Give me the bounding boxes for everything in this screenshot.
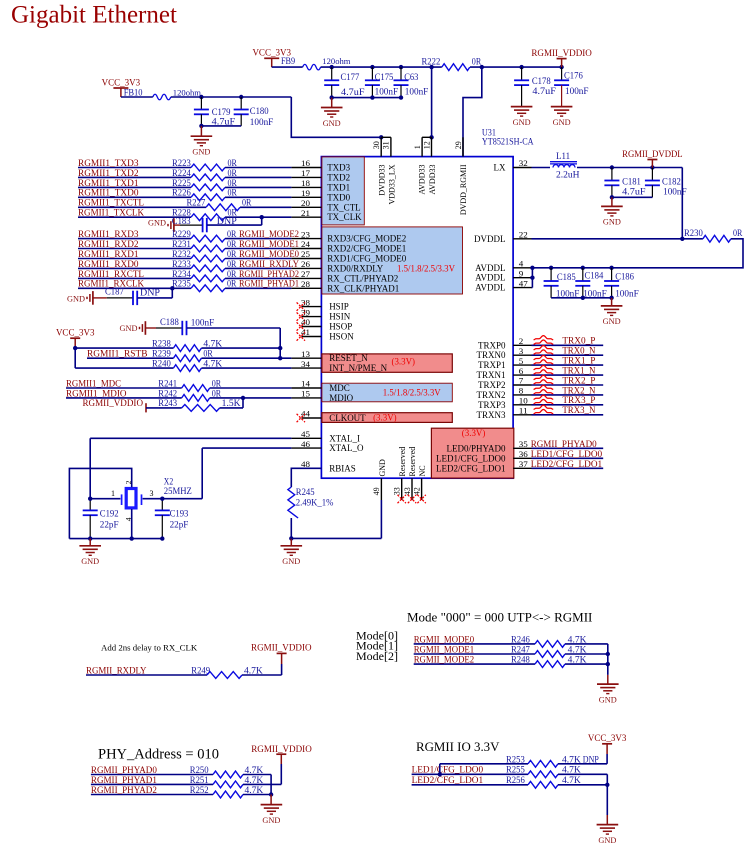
wire AVDDL cap bottoms: [551, 297, 612, 299]
ground below C176: [551, 106, 573, 108]
svg-text:4.7uF: 4.7uF: [212, 116, 236, 126]
svg-text:Gigabit Ethernet: Gigabit Ethernet: [11, 2, 177, 29]
svg-text:RGMII_MODE0: RGMII_MODE0: [414, 636, 475, 646]
svg-text:16: 16: [301, 158, 311, 168]
svg-text:AVDD33: AVDD33: [428, 165, 437, 195]
capacitor C186 100nF: [611, 268, 613, 281]
ground (PHY address): [270, 795, 272, 805]
svg-text:1.5/1.8/2.5/3.3V: 1.5/1.8/2.5/3.3V: [397, 264, 455, 274]
ground below R245: [290, 538, 292, 545]
svg-text:LED1/CFG_LDO0: LED1/CFG_LDO0: [531, 450, 603, 460]
svg-text:Mode[2]: Mode[2]: [356, 649, 398, 663]
wire net RGMII_PHYAD1: [91, 783, 213, 785]
highlight box RESET group: [322, 354, 452, 372]
svg-text:4.7K: 4.7K: [562, 754, 581, 764]
svg-text:VDD33_LX: VDD33_LX: [388, 164, 397, 204]
svg-text:TRXP0: TRXP0: [478, 340, 506, 350]
svg-text:0R: 0R: [227, 279, 237, 289]
wire net RGMII1_RXCTL: [78, 277, 191, 279]
svg-text:LED2/CFG_LDO1: LED2/CFG_LDO1: [436, 463, 506, 473]
svg-text:R238: R238: [152, 338, 171, 348]
svg-text:C192: C192: [100, 508, 119, 518]
svg-text:RGMII_PHYAD2: RGMII_PHYAD2: [239, 270, 299, 280]
svg-text:0R: 0R: [472, 57, 482, 67]
svg-text:46: 46: [301, 439, 311, 449]
svg-text:15: 15: [301, 389, 311, 399]
svg-text:RGMII_PHYAD0: RGMII_PHYAD0: [91, 766, 157, 776]
svg-text:RGMII1_TXD1: RGMII1_TXD1: [78, 179, 139, 189]
svg-text:GND: GND: [603, 217, 621, 227]
svg-text:GND: GND: [148, 218, 166, 228]
svg-text:42: 42: [412, 487, 421, 495]
U31 no-connect pins 38-41 and 44: [301, 306, 321, 308]
svg-text:R235: R235: [172, 279, 191, 289]
svg-text:9: 9: [519, 268, 524, 278]
svg-text:TRX3_N: TRX3_N: [562, 406, 595, 416]
svg-text:R239: R239: [152, 349, 171, 359]
no-connect marks pins 33/43/42: [398, 495, 406, 503]
highlight box LED group: [431, 428, 513, 478]
svg-text:LED0/PHYAD0: LED0/PHYAD0: [446, 443, 506, 453]
svg-text:Add 2ns delay to RX_CLK: Add 2ns delay to RX_CLK: [101, 642, 198, 652]
svg-text:DVDD_RGMII: DVDD_RGMII: [459, 164, 468, 215]
wire crystal case ground: [69, 468, 131, 538]
svg-text:GND: GND: [598, 835, 616, 845]
svg-text:HSIP: HSIP: [329, 302, 349, 312]
wire net RGMII1_RXD1: [78, 258, 191, 260]
svg-text:1.5/1.8/2.5/3.3V: 1.5/1.8/2.5/3.3V: [383, 387, 441, 397]
svg-text:31: 31: [382, 141, 391, 149]
wire VCC_3V3 to DVDD33 rail: [121, 96, 153, 98]
wire to AVDD33 pins 1/12: [431, 67, 433, 137]
svg-text:YT8521SH-CA: YT8521SH-CA: [482, 136, 534, 146]
svg-text:C182: C182: [662, 177, 681, 187]
svg-text:13: 13: [301, 349, 311, 359]
wire C187 to RX_CLK: [137, 297, 172, 299]
capacitor C177: [331, 67, 333, 80]
svg-text:AVDDL: AVDDL: [475, 263, 505, 273]
svg-text:R247: R247: [511, 645, 530, 655]
wire cap bottoms: [201, 125, 241, 127]
svg-text:DVDD33: DVDD33: [377, 165, 386, 196]
wire net RGMII_MODE1: [414, 653, 535, 655]
svg-text:3: 3: [150, 489, 154, 498]
svg-text:RGMII_VDDIO: RGMII_VDDIO: [251, 643, 312, 653]
svg-text:RXD0/RXDLY: RXD0/RXDLY: [327, 263, 384, 273]
svg-text:100nF: 100nF: [191, 318, 215, 328]
svg-text:R240: R240: [152, 358, 171, 368]
svg-text:C175: C175: [375, 72, 394, 82]
svg-text:4: 4: [519, 259, 524, 269]
svg-text:INT_N/PME_N: INT_N/PME_N: [329, 363, 387, 373]
svg-text:RGMII_PHYAD2: RGMII_PHYAD2: [91, 786, 157, 796]
svg-text:1.5K: 1.5K: [222, 398, 241, 408]
svg-text:TXD0: TXD0: [327, 192, 350, 202]
svg-text:100nF: 100nF: [565, 86, 589, 96]
svg-text:33: 33: [393, 487, 402, 495]
svg-text:R241: R241: [158, 378, 177, 388]
svg-text:CLKOUT: CLKOUT: [329, 413, 366, 423]
svg-text:(3.3V): (3.3V): [462, 428, 486, 438]
svg-text:TXD1: TXD1: [327, 182, 350, 192]
svg-text:25: 25: [301, 249, 311, 259]
svg-text:R246: R246: [511, 635, 530, 645]
wire C188 to RESET_N: [187, 327, 281, 329]
svg-text:21: 21: [301, 208, 310, 218]
svg-text:0R: 0R: [228, 168, 238, 178]
svg-text:43: 43: [403, 487, 412, 495]
svg-text:4.7K: 4.7K: [568, 655, 587, 665]
svg-text:TRX1_N: TRX1_N: [562, 367, 595, 377]
svg-text:RX_CLK/PHYAD1: RX_CLK/PHYAD1: [327, 283, 399, 293]
differential pair mark TRX1_P: [534, 355, 554, 359]
wire net RGMII1_TXD0: [78, 196, 191, 198]
svg-text:4.7uF: 4.7uF: [341, 87, 365, 97]
svg-text:R250: R250: [190, 765, 209, 775]
svg-text:R234: R234: [172, 269, 191, 279]
svg-text:100nF: 100nF: [375, 87, 399, 97]
svg-text:TRXN2: TRXN2: [477, 390, 506, 400]
svg-text:R229: R229: [172, 229, 191, 239]
U31 right pin stubs and numbers: [513, 167, 531, 169]
capacitor C185 100nF: [550, 268, 552, 281]
svg-text:RGMII1_TXD2: RGMII1_TXD2: [78, 169, 139, 179]
wire net RGMII1_RXD2: [78, 248, 191, 250]
svg-text:L11: L11: [556, 151, 570, 161]
highlight box RXD group: [322, 227, 463, 294]
svg-text:R222: R222: [422, 57, 441, 67]
svg-text:AVDD33: AVDD33: [418, 165, 427, 195]
svg-text:29: 29: [454, 141, 463, 149]
wire net TRX2_N: [532, 394, 604, 396]
svg-text:C186: C186: [615, 271, 634, 281]
svg-text:R227: R227: [187, 198, 206, 208]
svg-text:4.7K: 4.7K: [203, 358, 222, 368]
svg-text:FB9: FB9: [281, 56, 295, 66]
svg-text:4.7K: 4.7K: [245, 775, 264, 785]
svg-text:35: 35: [519, 439, 529, 449]
svg-text:R230: R230: [684, 228, 703, 238]
svg-text:RGMII IO 3.3V: RGMII IO 3.3V: [416, 740, 500, 754]
svg-text:27: 27: [301, 269, 311, 279]
svg-text:GND: GND: [192, 147, 210, 157]
svg-text:TRXN0: TRXN0: [477, 350, 506, 360]
svg-text:R252: R252: [190, 785, 209, 795]
wire net RGMII_PHYAD2: [91, 794, 213, 796]
svg-text:RX_CTL/PHYAD2: RX_CTL/PHYAD2: [327, 273, 398, 283]
U31 bottom pin stubs: [380, 478, 382, 500]
svg-text:GND: GND: [120, 323, 138, 333]
svg-text:RXD1/CFG_MODE0: RXD1/CFG_MODE0: [327, 254, 407, 264]
resistor R240 4.7K: [74, 348, 76, 368]
svg-text:26: 26: [301, 259, 311, 269]
svg-text:4.7K: 4.7K: [568, 645, 587, 655]
svg-text:R233: R233: [172, 259, 191, 269]
svg-text:4.7uF: 4.7uF: [622, 187, 646, 197]
svg-text:C184: C184: [585, 270, 604, 280]
svg-text:12: 12: [422, 141, 431, 149]
svg-text:22pF: 22pF: [100, 519, 119, 529]
svg-text:RGMII_MODE0: RGMII_MODE0: [239, 250, 299, 260]
svg-text:1: 1: [111, 489, 115, 498]
wire net TRX1_P: [532, 364, 604, 366]
wire net LX: [532, 167, 551, 169]
highlight box CLKOUT: [322, 413, 452, 423]
ground below C177: [331, 98, 333, 108]
capacitor C184 100nF: [582, 268, 584, 281]
svg-text:23: 23: [301, 229, 311, 239]
capacitor C192 22pF: [89, 499, 91, 511]
svg-text:LX: LX: [494, 163, 506, 173]
svg-text:RESET_N: RESET_N: [329, 353, 368, 363]
svg-text:(3.3V): (3.3V): [392, 356, 416, 366]
wire C183 to TX_CLK: [207, 224, 262, 226]
svg-text:37: 37: [519, 459, 529, 469]
capacitor C188 100nF: [156, 327, 182, 329]
svg-text:R224: R224: [172, 168, 191, 178]
resistor R253 4.7K DNP: [440, 763, 528, 765]
svg-text:32: 32: [519, 158, 528, 168]
wire net RGMII1_RXD0: [78, 267, 191, 269]
wire top 3V3 rail: [272, 66, 303, 68]
svg-text:RGMII_VDDIO: RGMII_VDDIO: [531, 49, 592, 59]
ground below C192: [89, 539, 91, 546]
svg-text:RXD3/CFG_MODE2: RXD3/CFG_MODE2: [327, 234, 406, 244]
capacitor C180: [240, 97, 242, 110]
svg-text:4.7K: 4.7K: [244, 665, 263, 675]
svg-text:4.7K: 4.7K: [203, 338, 222, 348]
svg-text:GND: GND: [378, 459, 387, 477]
svg-text:Reserved: Reserved: [398, 447, 407, 477]
svg-text:RXD2/CFG_MODE1: RXD2/CFG_MODE1: [327, 244, 406, 254]
wire mode resistors to ground: [607, 644, 609, 675]
svg-text:RGMII_MODE2: RGMII_MODE2: [414, 656, 475, 666]
svg-text:TXD2: TXD2: [327, 172, 350, 182]
svg-text:GND: GND: [262, 815, 280, 825]
U31 top pin stubs: [380, 137, 382, 156]
svg-text:R255: R255: [506, 765, 525, 775]
svg-text:XTAL_O: XTAL_O: [329, 443, 364, 453]
svg-text:4.7K: 4.7K: [568, 635, 587, 645]
svg-text:Mode "000" = 000 UTP<-> RGMII: Mode "000" = 000 UTP<-> RGMII: [407, 610, 592, 625]
capacitor C179: [200, 97, 202, 110]
wire net TRX0_N: [532, 354, 604, 356]
svg-text:0R: 0R: [227, 239, 237, 249]
svg-text:30: 30: [372, 141, 381, 149]
svg-text:GND: GND: [67, 293, 85, 303]
wire to DVDD_RGMII pin 29: [463, 67, 482, 157]
wire net RGMII1_TXD2: [78, 176, 191, 178]
svg-text:GND: GND: [553, 117, 571, 127]
svg-text:22pF: 22pF: [170, 519, 189, 529]
svg-text:TRXP3: TRXP3: [478, 400, 506, 410]
svg-text:0R: 0R: [228, 188, 238, 198]
svg-text:TRX2_N: TRX2_N: [562, 386, 595, 396]
svg-text:R225: R225: [172, 178, 191, 188]
svg-text:120ohm: 120ohm: [322, 56, 351, 66]
svg-text:TRXP2: TRXP2: [478, 380, 506, 390]
svg-text:TRX1_P: TRX1_P: [562, 357, 595, 367]
svg-text:47: 47: [519, 278, 529, 288]
capacitor C178: [521, 67, 523, 80]
svg-text:(3.3V): (3.3V): [373, 413, 397, 423]
svg-text:TXD3: TXD3: [327, 163, 350, 173]
svg-text:5: 5: [519, 356, 524, 366]
U31 left pin stubs and numbers: [291, 167, 321, 169]
differential pair mark TRX2_N: [534, 385, 554, 389]
svg-text:0R: 0R: [227, 229, 237, 239]
svg-text:RGMII_RXDLY: RGMII_RXDLY: [239, 260, 299, 270]
differential pair mark TRX2_P: [534, 375, 554, 379]
svg-text:DNP: DNP: [140, 287, 160, 297]
svg-text:LED1/CFG_LDO0: LED1/CFG_LDO0: [436, 453, 506, 463]
svg-text:PHY_Address = 010: PHY_Address = 010: [98, 747, 219, 763]
svg-text:RGMII1_TXCTL: RGMII1_TXCTL: [78, 199, 144, 209]
svg-text:MDIO: MDIO: [329, 393, 353, 403]
svg-text:RGMII1_RXD3: RGMII1_RXD3: [78, 230, 139, 240]
svg-text:20: 20: [301, 198, 311, 208]
highlight box MDC/MDIO group: [322, 383, 452, 402]
svg-text:0R: 0R: [212, 388, 222, 398]
differential pair mark TRX3_N: [534, 405, 554, 409]
capacitor C187 DNP: [107, 297, 133, 299]
highlight box TXD group: [322, 157, 364, 225]
wire net XTAL_I: [90, 437, 291, 439]
svg-text:RGMII_PHYAD1: RGMII_PHYAD1: [91, 776, 157, 786]
wire net RGMII_MODE0: [414, 643, 535, 645]
svg-text:R226: R226: [172, 188, 191, 198]
svg-text:4.7K: 4.7K: [562, 765, 581, 775]
differential pair mark TRX1_N: [534, 365, 554, 369]
wire net LED2/CFG_LDO1: [532, 467, 604, 469]
svg-text:R253: R253: [506, 754, 525, 764]
svg-text:TRXN3: TRXN3: [477, 410, 506, 420]
ground (RGMII IO): [606, 785, 608, 815]
svg-text:HSIN: HSIN: [329, 312, 351, 322]
wire RBIAS pin 48: [291, 468, 321, 487]
wire net TRX2_P: [532, 384, 604, 386]
wire C181/C182 bottoms: [612, 196, 653, 198]
svg-text:TX_CLK: TX_CLK: [327, 212, 362, 222]
wire net RGMII1_RXCLK: [78, 287, 191, 289]
svg-text:6: 6: [519, 366, 524, 376]
svg-text:TRXN1: TRXN1: [477, 370, 506, 380]
wire AVDDL pins 4/9/47 tie: [531, 268, 533, 288]
svg-text:1: 1: [413, 145, 422, 149]
svg-text:C188: C188: [160, 317, 179, 327]
capacitor C183 DNP: [180, 224, 202, 226]
svg-text:R248: R248: [511, 655, 530, 665]
wire net RGMII1_TXCTL: [78, 206, 206, 208]
svg-text:LED2/CFG_LDO1: LED2/CFG_LDO1: [531, 460, 603, 470]
wire net TRX3_N: [532, 414, 604, 416]
wire xtal ground rail: [69, 538, 162, 540]
svg-text:100nF: 100nF: [250, 117, 273, 127]
svg-text:19: 19: [301, 188, 311, 198]
svg-text:VCC_3V3: VCC_3V3: [588, 734, 627, 744]
wire net TRX3_P: [532, 404, 604, 406]
svg-text:C181: C181: [622, 177, 641, 187]
resistor R238 4.7K: [75, 347, 173, 349]
svg-text:RGMII1_RXD1: RGMII1_RXD1: [78, 250, 139, 260]
wire net RGMII_MODE2: [414, 663, 535, 665]
wire net RGMII_PHYAD0: [91, 774, 213, 776]
resistor R243 1.5K: [146, 407, 182, 409]
svg-text:RBIAS: RBIAS: [329, 463, 356, 473]
svg-text:C63: C63: [404, 72, 418, 82]
svg-text:8: 8: [519, 386, 524, 396]
svg-text:C183: C183: [172, 216, 191, 226]
svg-text:0R: 0R: [733, 228, 743, 238]
svg-text:GND: GND: [323, 118, 341, 128]
svg-text:R251: R251: [190, 775, 209, 785]
svg-text:C193: C193: [170, 508, 189, 518]
svg-text:R256: R256: [506, 775, 525, 785]
svg-text:GND: GND: [81, 556, 99, 566]
svg-text:RGMII1_TXD0: RGMII1_TXD0: [78, 189, 139, 199]
svg-text:C180: C180: [250, 106, 269, 116]
svg-text:0R: 0R: [228, 158, 238, 168]
svg-text:TRX3_P: TRX3_P: [562, 396, 595, 406]
svg-text:0R: 0R: [203, 349, 213, 359]
svg-text:C177: C177: [341, 72, 360, 82]
differential pair mark TRX3_P: [534, 395, 554, 399]
svg-text:RGMII1_RXD2: RGMII1_RXD2: [78, 240, 139, 250]
svg-text:RGMII1_TXD3: RGMII1_TXD3: [78, 159, 139, 169]
svg-text:0R: 0R: [227, 259, 237, 269]
svg-text:C176: C176: [564, 70, 583, 80]
svg-text:36: 36: [519, 449, 529, 459]
svg-text:0R: 0R: [212, 378, 222, 388]
svg-text:DVDDL: DVDDL: [474, 234, 506, 244]
ground (mode): [597, 683, 619, 685]
svg-text:HSOP: HSOP: [329, 322, 352, 332]
wire R230 to AVDDL rail: [612, 239, 743, 268]
svg-text:0R: 0R: [227, 249, 237, 259]
svg-text:RGMII_PHYAD0: RGMII_PHYAD0: [531, 440, 597, 450]
capacitor C175: [371, 67, 373, 80]
svg-text:0R: 0R: [227, 269, 237, 279]
svg-text:2.2uH: 2.2uH: [556, 170, 580, 180]
wire R243 to MDIO: [220, 407, 243, 409]
svg-text:XTAL_I: XTAL_I: [329, 433, 360, 443]
svg-text:TRX0_P: TRX0_P: [562, 337, 595, 347]
svg-text:TX_CTL: TX_CTL: [327, 202, 361, 212]
svg-text:C187: C187: [105, 286, 124, 296]
svg-text:100nF: 100nF: [615, 289, 639, 299]
svg-text:7: 7: [519, 376, 524, 386]
svg-text:NC: NC: [418, 465, 427, 476]
svg-text:RGMII_DVDDL: RGMII_DVDDL: [622, 150, 683, 160]
svg-text:GND: GND: [603, 316, 621, 326]
svg-text:R243: R243: [158, 398, 177, 408]
svg-text:100nF: 100nF: [405, 87, 429, 97]
svg-text:GND: GND: [282, 556, 300, 566]
svg-text:2.49K_1%: 2.49K_1%: [296, 498, 334, 508]
svg-text:11: 11: [519, 406, 528, 416]
ground below C179: [200, 126, 202, 136]
svg-text:45: 45: [301, 429, 311, 439]
svg-text:R245: R245: [296, 487, 315, 497]
wire net TRX0_P: [532, 344, 604, 346]
ground below C178: [511, 106, 533, 108]
capacitor C181 4.7uF: [611, 168, 613, 181]
svg-text:TRX2_P: TRX2_P: [562, 376, 595, 386]
svg-text:10: 10: [519, 396, 529, 406]
svg-text:RGMII1_TXCLK: RGMII1_TXCLK: [78, 209, 144, 219]
svg-text:14: 14: [301, 379, 311, 389]
wire R250/R252 to ground: [243, 774, 271, 776]
